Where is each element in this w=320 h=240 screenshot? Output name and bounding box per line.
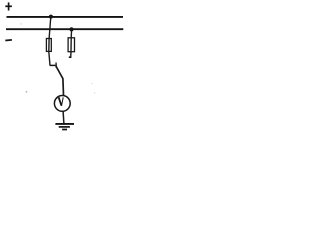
- minus terminal label: [5, 39, 12, 42]
- open contact tick below fuse F2: [69, 56, 72, 58]
- voltmeter M1 circle: [54, 96, 70, 112]
- ground symbol: [55, 124, 74, 130]
- wire: left branch from positive bus through fuse F1: [49, 17, 51, 66]
- negative bus wire: [6, 28, 123, 30]
- voltmeter letter V: [58, 98, 64, 106]
- scan specks: [20, 23, 95, 94]
- wire: right branch from negative bus through fuse F2: [70, 29, 73, 57]
- junction dot on negative bus: [69, 27, 73, 31]
- plus terminal label: [5, 2, 12, 10]
- fuse F2 (right): [68, 38, 74, 52]
- positive bus wire: [7, 16, 124, 18]
- fuse F1 (left): [46, 39, 51, 52]
- switch S1 blade wire to voltmeter: [56, 66, 64, 95]
- switch S1 fixed contact tick: [50, 64, 57, 66]
- switch S1 contact jaw stub: [55, 62, 57, 68]
- wire: voltmeter to ground: [62, 111, 65, 123]
- junction dot on positive bus: [49, 15, 53, 19]
